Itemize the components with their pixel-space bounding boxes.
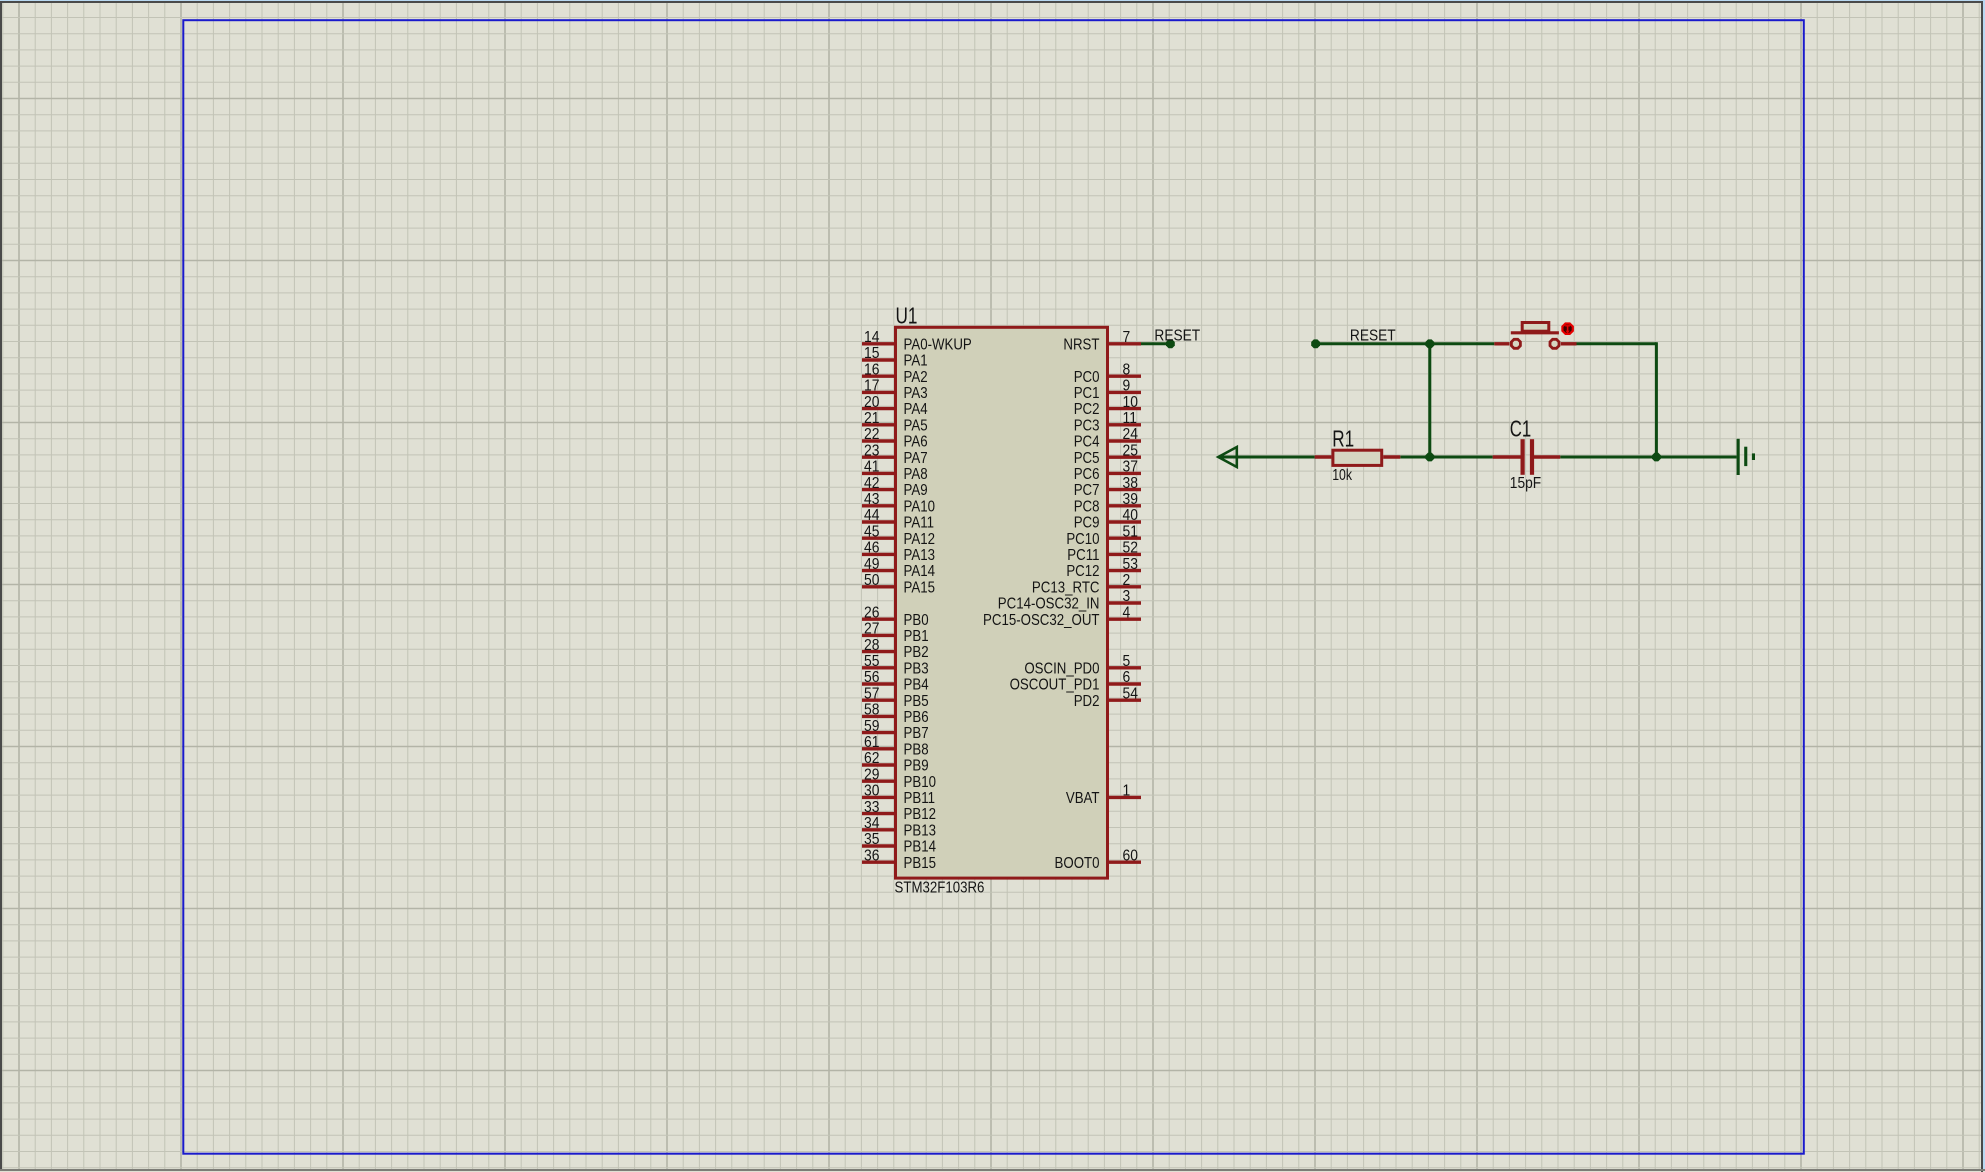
svg-text:23: 23 [864,443,879,460]
svg-text:PB11: PB11 [904,790,935,807]
svg-text:RESET: RESET [1350,328,1396,345]
svg-text:PC4: PC4 [1074,434,1100,451]
svg-text:PC1: PC1 [1074,385,1100,402]
svg-text:46: 46 [864,540,879,557]
svg-text:PB6: PB6 [904,709,929,726]
svg-text:15: 15 [864,345,879,362]
svg-text:1: 1 [1123,783,1131,800]
svg-text:PB3: PB3 [904,660,929,677]
svg-text:29: 29 [864,767,879,784]
svg-text:49: 49 [864,556,879,573]
svg-text:60: 60 [1123,848,1138,865]
svg-text:OSCIN_PD0: OSCIN_PD0 [1024,660,1099,677]
svg-text:50: 50 [864,572,879,589]
svg-text:5: 5 [1123,653,1131,670]
svg-text:45: 45 [864,524,879,541]
svg-text:14: 14 [864,329,879,346]
svg-text:PA1: PA1 [904,353,928,370]
svg-text:8: 8 [1123,362,1131,379]
svg-text:24: 24 [1123,426,1138,443]
svg-text:PA3: PA3 [904,385,928,402]
svg-text:PC11: PC11 [1067,547,1099,564]
svg-text:PC2: PC2 [1074,401,1100,418]
svg-text:42: 42 [864,475,879,492]
svg-text:PB0: PB0 [904,612,929,629]
svg-text:PC5: PC5 [1074,450,1100,467]
svg-text:BOOT0: BOOT0 [1055,855,1100,872]
svg-text:PA15: PA15 [904,579,935,596]
svg-text:PA5: PA5 [904,417,928,434]
svg-text:PC7: PC7 [1074,482,1100,499]
svg-text:62: 62 [864,750,879,767]
svg-text:PD2: PD2 [1074,693,1100,710]
svg-text:PA2: PA2 [904,369,928,386]
svg-text:PA8: PA8 [904,466,928,483]
svg-text:51: 51 [1123,524,1138,541]
svg-text:U1: U1 [896,303,918,329]
svg-text:PB1: PB1 [904,628,929,645]
svg-text:25: 25 [1123,443,1138,460]
svg-text:PB4: PB4 [904,677,929,694]
svg-text:27: 27 [864,621,879,638]
svg-text:55: 55 [864,653,879,670]
svg-text:30: 30 [864,783,879,800]
svg-text:54: 54 [1123,686,1138,703]
svg-text:PB10: PB10 [904,774,936,791]
svg-text:17: 17 [864,378,879,395]
svg-text:RESET: RESET [1154,328,1200,345]
svg-text:PB5: PB5 [904,693,929,710]
svg-text:59: 59 [864,718,879,735]
svg-text:PC10: PC10 [1066,531,1099,548]
svg-text:PA6: PA6 [904,434,928,451]
svg-text:PC9: PC9 [1074,515,1100,532]
svg-text:PB14: PB14 [904,839,936,856]
svg-text:PC0: PC0 [1074,369,1100,386]
svg-text:9: 9 [1123,378,1131,395]
svg-text:52: 52 [1123,540,1138,557]
svg-text:VBAT: VBAT [1066,790,1100,807]
svg-text:61: 61 [864,734,879,751]
svg-text:PC6: PC6 [1074,466,1100,483]
svg-text:PA11: PA11 [904,515,934,532]
svg-text:16: 16 [864,362,879,379]
svg-text:3: 3 [1123,588,1131,605]
svg-text:20: 20 [864,394,879,411]
svg-text:7: 7 [1123,329,1131,346]
svg-text:PA13: PA13 [904,547,935,564]
svg-text:PA7: PA7 [904,450,928,467]
svg-text:PA12: PA12 [904,531,935,548]
svg-text:36: 36 [864,848,879,865]
svg-text:PA4: PA4 [904,401,928,418]
svg-text:PB15: PB15 [904,855,936,872]
svg-text:39: 39 [1123,491,1138,508]
svg-text:37: 37 [1123,459,1138,476]
svg-text:10: 10 [1123,394,1138,411]
svg-text:PB13: PB13 [904,822,936,839]
svg-text:PB2: PB2 [904,644,929,661]
svg-text:OSCOUT_PD1: OSCOUT_PD1 [1010,677,1100,694]
svg-text:2: 2 [1123,572,1131,589]
svg-text:STM32F103R6: STM32F103R6 [895,880,985,897]
svg-text:PC12: PC12 [1066,563,1099,580]
svg-text:11: 11 [1123,410,1137,427]
svg-text:21: 21 [864,410,879,427]
svg-text:58: 58 [864,702,879,719]
svg-text:PB7: PB7 [904,725,929,742]
svg-text:15pF: 15pF [1510,475,1541,492]
svg-text:PB8: PB8 [904,741,929,758]
svg-text:35: 35 [864,831,879,848]
svg-text:PB9: PB9 [904,758,929,775]
svg-text:PA9: PA9 [904,482,928,499]
svg-text:40: 40 [1123,507,1138,524]
svg-text:C1: C1 [1510,417,1531,442]
svg-text:38: 38 [1123,475,1138,492]
svg-text:6: 6 [1123,669,1131,686]
svg-text:56: 56 [864,669,879,686]
svg-text:28: 28 [864,637,879,654]
svg-text:57: 57 [864,686,879,703]
svg-text:PA14: PA14 [904,563,935,580]
svg-text:22: 22 [864,426,879,443]
svg-text:53: 53 [1123,556,1138,573]
svg-text:10k: 10k [1332,467,1353,485]
svg-text:44: 44 [864,507,879,524]
svg-text:PB12: PB12 [904,806,936,823]
svg-text:PA0-WKUP: PA0-WKUP [904,336,972,353]
svg-text:PC3: PC3 [1074,417,1100,434]
svg-text:41: 41 [864,459,879,476]
svg-text:PC15-OSC32_OUT: PC15-OSC32_OUT [983,612,1100,629]
svg-text:43: 43 [864,491,879,508]
svg-text:PC8: PC8 [1074,498,1100,515]
svg-text:26: 26 [864,605,879,622]
svg-text:NRST: NRST [1063,336,1099,353]
svg-text:PC13_RTC: PC13_RTC [1032,579,1100,596]
svg-text:34: 34 [864,815,879,832]
svg-text:4: 4 [1123,605,1131,622]
svg-text:PA10: PA10 [904,498,935,515]
svg-text:33: 33 [864,799,879,816]
svg-text:R1: R1 [1332,426,1354,452]
svg-text:PC14-OSC32_IN: PC14-OSC32_IN [998,596,1100,613]
